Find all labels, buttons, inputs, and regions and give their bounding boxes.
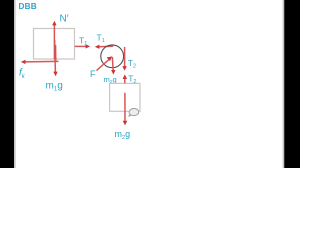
right black pillar bar xyxy=(284,0,300,168)
box m2 xyxy=(110,83,140,111)
tension T1 arrow from box (pointing right) xyxy=(75,44,90,48)
friction fk arrow xyxy=(21,60,59,64)
svg-text:DBB: DBB xyxy=(19,2,37,11)
weight m1g arrow xyxy=(53,40,57,76)
doodle at box m2 corner xyxy=(129,109,139,117)
left black pillar bar xyxy=(0,0,14,168)
svg-text:F: F xyxy=(90,69,96,79)
weight m2g arrow through box m2 xyxy=(123,93,128,126)
force F arrow into pulley axle xyxy=(97,56,113,70)
pulley weight arrow (down from centre) xyxy=(111,57,115,75)
normal force N arrow xyxy=(52,21,56,59)
pulley circle xyxy=(101,45,124,68)
svg-text:N′: N′ xyxy=(60,14,69,25)
tension T1 arrow on pulley (pointing left) xyxy=(95,45,113,49)
box m1 xyxy=(34,29,75,60)
tension T2 arrow on box m2 (pointing up) xyxy=(123,74,127,83)
tension T2 arrow on pulley (pointing down along right tangent) xyxy=(122,47,126,71)
